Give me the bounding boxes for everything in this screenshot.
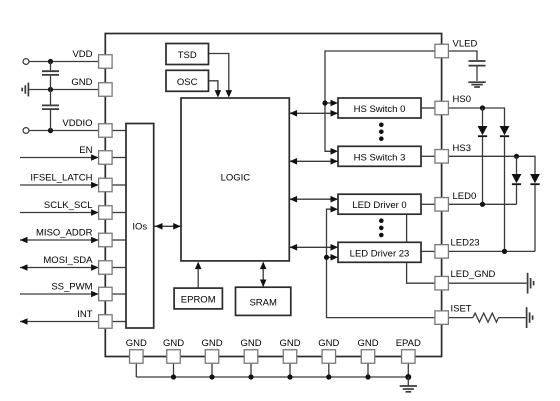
pin GND6 bottom (322, 350, 336, 364)
wire HS Switch 0 to HS0 pin (421, 107, 435, 109)
pin GND4 bottom (244, 350, 258, 364)
wire IFSEL_LATCH pin to IOs (112, 184, 126, 186)
wire diode string C bottom (516, 185, 518, 205)
ground symbol left of GND pin (22, 83, 28, 97)
ground symbol LED_GND (528, 273, 534, 294)
block SRAM (236, 287, 291, 315)
wire LOGIC to LED Driver 0 bidirectional (289, 196, 338, 203)
svg-text:VLED: VLED (453, 39, 478, 50)
wire VDD net (terminal to pin) (29, 61, 99, 63)
svg-text:HS Switch 0: HS Switch 0 (354, 104, 406, 115)
wire SRAM to LOGIC bidirectional (260, 262, 267, 287)
svg-text:IFSEL_LATCH: IFSEL_LATCH (30, 173, 92, 184)
wire VDDIO net (terminal to pin) (29, 130, 99, 132)
wire LOGIC to LED Driver 23 bidirectional (289, 244, 338, 251)
ellipsis dots between LED drivers (379, 218, 384, 237)
pin GND5 bottom (283, 350, 297, 364)
pin HS0 (435, 101, 449, 115)
diode D3 (512, 174, 522, 184)
pin LED0 (435, 198, 449, 212)
svg-text:EPROM: EPROM (181, 295, 216, 306)
wire diode string B bottom (504, 137, 506, 252)
pin MISO_ADDR (99, 233, 113, 247)
wire LED_GND to ground (448, 282, 526, 284)
ground symbol below C3 (468, 82, 486, 87)
block LED Driver 23 (338, 242, 421, 262)
svg-text:SCLK_SCL: SCLK_SCL (44, 200, 93, 211)
node HS3 diode tap (514, 154, 519, 159)
wire LOGIC to HS Switch 3 bidirectional (289, 158, 338, 165)
pin HS3 (435, 150, 449, 164)
wire VLED decoupling branch (448, 51, 477, 60)
diode D4 (530, 174, 540, 184)
wire diode string A top (482, 108, 484, 127)
wire bottom GND bus (136, 363, 408, 377)
node ISET rail junction (324, 255, 329, 260)
wire LOGIC to HS Switch 0 bidirectional (289, 110, 338, 117)
wire LED driver ground bus to LED_GND pin (407, 214, 435, 283)
wire HS3 net (448, 156, 535, 174)
svg-text:GND: GND (201, 338, 222, 349)
wire EN pin to IOs (112, 157, 126, 159)
pin GND (99, 83, 113, 97)
ellipsis dots between HS switches (379, 123, 384, 142)
svg-text:EPAD: EPAD (396, 338, 421, 349)
capacitor C1 (VDD-GND) (42, 62, 59, 90)
wire GND net (ground to pin) (29, 89, 99, 91)
wire VLED rail to HS switches (325, 51, 435, 155)
svg-text:HS3: HS3 (453, 143, 471, 154)
wire EPROM to LOGIC (195, 262, 202, 288)
terminal VDD (23, 59, 29, 65)
wire HS0 net (448, 108, 504, 127)
wire MISO_ADDR bidirectional (20, 237, 99, 244)
svg-text:GND: GND (318, 338, 339, 349)
block HS Switch 0 (338, 98, 421, 118)
wire IOs to LOGIC bidirectional (154, 223, 181, 230)
diode D2 (500, 126, 510, 136)
node LED23 junction (502, 249, 507, 254)
svg-text:GND: GND (240, 338, 261, 349)
svg-text:VDD: VDD (72, 49, 92, 60)
svg-text:MOSI_SDA: MOSI_SDA (43, 255, 93, 266)
svg-text:OSC: OSC (177, 77, 198, 88)
pin LED23 (435, 245, 449, 259)
diode D1 (478, 126, 488, 136)
wire LED23 net (448, 250, 535, 252)
pin EN (99, 151, 113, 165)
svg-text:LED Driver 0: LED Driver 0 (352, 200, 406, 211)
pin INT (99, 315, 113, 329)
wire resistor to ground (499, 317, 526, 319)
svg-text:HS Switch 3: HS Switch 3 (354, 152, 406, 163)
node VLED rail junction (322, 100, 327, 105)
node GND junction (48, 87, 53, 92)
svg-text:EN: EN (79, 145, 92, 156)
wire OSC to LOGIC (209, 81, 222, 98)
pin LED_GND (435, 276, 449, 290)
resistor R1 (ISET) (473, 313, 499, 322)
svg-text:LED0: LED0 (453, 191, 477, 202)
pin ISET (435, 311, 449, 325)
wire EN input (20, 154, 99, 161)
svg-text:IOs: IOs (132, 222, 147, 233)
pin GND2 bottom (167, 350, 181, 364)
block LOGIC U2 (181, 98, 289, 261)
ground symbol ISET (527, 307, 533, 328)
svg-text:INT: INT (77, 309, 93, 320)
block LED Driver 0 (338, 194, 421, 214)
wire diode string C top (516, 156, 518, 174)
pin SS_PWM (99, 287, 113, 301)
pin MOSI_SDA (99, 261, 113, 275)
wire MISO_ADDR pin to IOs (112, 239, 126, 241)
wire LED Driver 23 to LED23 pin (421, 250, 435, 252)
wire VDDIO pin to IOs (112, 130, 126, 132)
wire ISET to resistor (448, 317, 473, 319)
node LED0 junction (480, 202, 485, 207)
svg-text:GND: GND (126, 338, 147, 349)
svg-text:MISO_ADDR: MISO_ADDR (36, 228, 93, 239)
wire MOSI_SDA bidirectional (20, 264, 99, 271)
svg-text:GND: GND (279, 338, 300, 349)
svg-text:SS_PWM: SS_PWM (51, 282, 92, 293)
pin GND3 bottom (205, 350, 219, 364)
block IOs (126, 124, 154, 329)
wire EPAD to ground (407, 377, 409, 385)
svg-text:HS0: HS0 (453, 94, 471, 105)
svg-text:GND: GND (163, 338, 184, 349)
block OSC (166, 70, 209, 91)
wire ISET rail to LED drivers (327, 206, 435, 318)
wire IFSEL_LATCH input (20, 182, 99, 189)
svg-text:LOGIC: LOGIC (221, 173, 251, 184)
pin IFSEL_LATCH (99, 178, 113, 192)
svg-text:VDDIO: VDDIO (62, 118, 92, 129)
ground symbol EPAD (400, 386, 417, 392)
terminal VDDIO (23, 128, 29, 134)
svg-text:SRAM: SRAM (249, 297, 277, 308)
node VDDIO junction (48, 128, 53, 133)
block TSD (166, 44, 209, 65)
wire diode string A bottom (482, 137, 484, 205)
wire INT pin to IOs (112, 321, 126, 323)
wire LED0 net (448, 203, 516, 205)
wire SS_PWM pin to IOs (112, 293, 126, 295)
block HS Switch 3 (338, 146, 421, 166)
block EPROM (174, 288, 222, 309)
chip outline U1 (105, 34, 441, 357)
wire INT output (20, 318, 99, 325)
svg-text:LED Driver 23: LED Driver 23 (350, 248, 410, 259)
pin VDDIO (99, 124, 113, 138)
wire SS_PWM input (20, 291, 99, 298)
pin SCLK_SCL (99, 206, 113, 220)
svg-text:TSD: TSD (178, 50, 197, 61)
node HS0 diode tap (480, 105, 485, 110)
wire SCLK_SCL pin to IOs (112, 212, 126, 214)
svg-text:GND: GND (71, 77, 92, 88)
capacitor C2 (GND-VDDIO) (42, 90, 59, 131)
node bus junction dots (171, 374, 411, 380)
pin EPAD (402, 350, 416, 364)
wire TSD to LOGIC (209, 54, 233, 98)
wire HS Switch 3 to HS3 pin (421, 155, 435, 157)
svg-text:ISET: ISET (451, 304, 472, 315)
capacitor C3 (VLED) (469, 61, 486, 81)
pin VDD (99, 55, 113, 69)
node VDD junction (48, 59, 53, 64)
svg-text:GND: GND (357, 338, 378, 349)
svg-text:LED23: LED23 (451, 238, 480, 249)
pin GND1 bottom (130, 350, 144, 364)
wire diode string D bottom (534, 185, 536, 252)
pin GND7 bottom (361, 350, 375, 364)
wire MOSI_SDA pin to IOs (112, 267, 126, 269)
svg-text:LED_GND: LED_GND (451, 269, 496, 280)
wire LED Driver 0 to LED0 pin (421, 203, 435, 205)
pin VLED (435, 44, 449, 58)
wire SCLK_SCL input (20, 209, 99, 216)
